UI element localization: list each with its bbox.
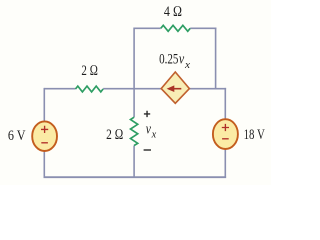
resistor 4ohm zigzag — [161, 25, 190, 31]
wire right branch lower — [224, 149, 226, 178]
wire middle right segment — [189, 88, 227, 90]
wire bottom rail — [44, 176, 227, 178]
wire top right segment — [190, 27, 216, 29]
svg-text:4 Ω: 4 Ω — [164, 4, 182, 20]
svg-text:v: v — [146, 121, 151, 137]
svg-text:18 V: 18 V — [244, 127, 265, 143]
dependent source 0.25vx diamond — [161, 72, 189, 103]
svg-text:v: v — [179, 51, 185, 67]
svg-text:x: x — [151, 129, 157, 140]
label vx minus — [144, 149, 151, 151]
wire right branch upper — [224, 88, 226, 120]
svg-text:0.25: 0.25 — [159, 51, 178, 67]
wire middle left segment — [44, 88, 75, 90]
wire middle branch lower — [133, 146, 135, 178]
svg-text:2 Ω: 2 Ω — [81, 63, 98, 79]
voltage source 6V — [32, 121, 57, 151]
svg-text:2 Ω: 2 Ω — [106, 127, 123, 143]
wire top left segment — [134, 27, 161, 29]
wire left branch upper — [43, 88, 45, 122]
resistor 2ohm vertical zigzag — [131, 117, 138, 145]
svg-text:6 V: 6 V — [8, 128, 26, 144]
svg-text:x: x — [184, 60, 191, 71]
wire left branch lower — [43, 151, 45, 178]
wire middle branch upper — [133, 28, 135, 118]
voltage source 18V — [213, 119, 238, 149]
wire middle center segment — [103, 88, 162, 90]
resistor 2ohm horizontal zigzag — [76, 86, 104, 92]
label vx plus — [144, 111, 150, 117]
wire top-right vertical — [215, 28, 217, 89]
